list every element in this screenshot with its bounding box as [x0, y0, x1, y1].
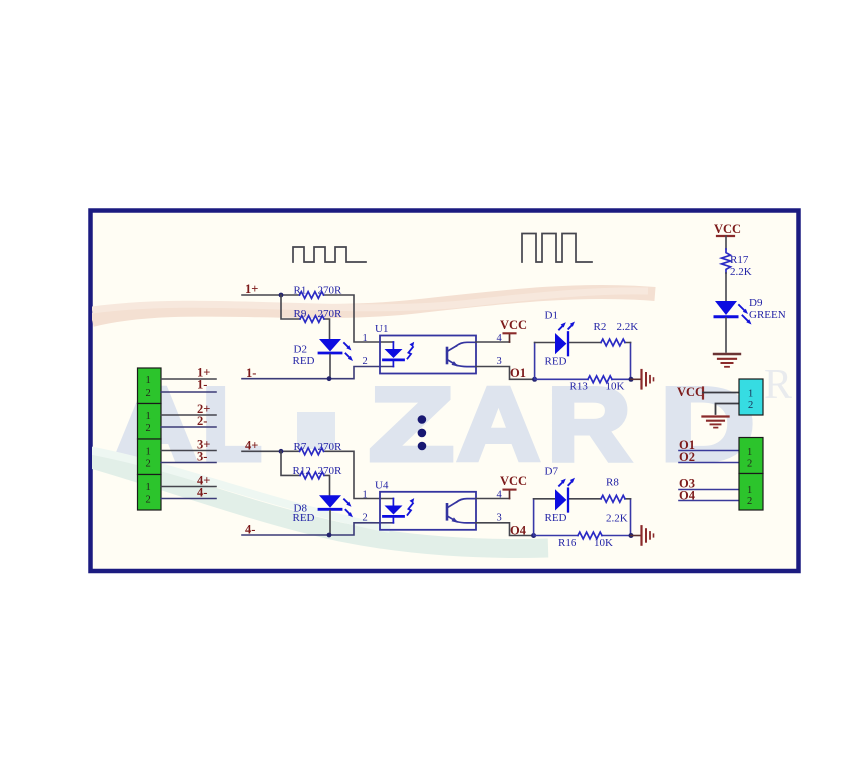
svg-text:270R: 270R — [318, 285, 343, 297]
svg-text:270R: 270R — [318, 465, 343, 477]
LED D8 — [319, 495, 341, 508]
svg-text:1: 1 — [747, 447, 752, 458]
svg-text:O4: O4 — [510, 524, 527, 538]
LED D9 — [715, 301, 737, 315]
wire — [242, 295, 393, 342]
svg-text:270R: 270R — [318, 441, 343, 453]
svg-text:1: 1 — [146, 375, 151, 386]
junction — [327, 533, 332, 538]
resistor R2 — [601, 339, 625, 346]
svg-text:VCC: VCC — [500, 474, 527, 488]
resistor R17 — [722, 249, 731, 273]
waveform W2 — [522, 234, 592, 263]
svg-text:L: L — [202, 367, 262, 483]
svg-text:D2: D2 — [294, 344, 307, 356]
svg-text:1: 1 — [146, 447, 151, 458]
ground (D9) — [714, 353, 740, 355]
terminal block J1 — [138, 368, 162, 404]
pin 3 / O1 — [476, 367, 535, 380]
LED D2 — [319, 339, 341, 352]
svg-text:4+: 4+ — [245, 439, 258, 453]
wire — [242, 523, 393, 535]
op-to-coupler U4 — [380, 492, 476, 530]
wire R16 row — [534, 535, 631, 537]
svg-text:2: 2 — [146, 459, 151, 470]
svg-text:RED: RED — [545, 512, 567, 524]
svg-text:2: 2 — [146, 388, 151, 399]
svg-text:RED: RED — [293, 512, 315, 524]
O2 wire — [679, 462, 739, 464]
wire — [281, 451, 330, 495]
junction — [279, 293, 284, 298]
waveform W1 — [293, 247, 366, 262]
J1 pin wires — [161, 378, 216, 380]
LED D1 — [555, 333, 566, 354]
junction O4 — [531, 533, 536, 538]
svg-text:1: 1 — [146, 411, 151, 422]
ground (O1) — [631, 378, 641, 380]
svg-text:R8: R8 — [606, 477, 619, 489]
J4 pin wires — [161, 486, 216, 488]
wire — [242, 451, 393, 498]
svg-text:1: 1 — [146, 482, 151, 493]
svg-text:2: 2 — [747, 496, 752, 507]
pin 4 / VCC — [476, 498, 510, 500]
resistor R8 — [601, 495, 625, 502]
ellipsis dots — [418, 415, 427, 424]
resistor R7 — [300, 448, 324, 455]
terminal block J4 — [138, 475, 162, 511]
wire — [725, 273, 727, 301]
svg-text:R17: R17 — [730, 254, 749, 266]
resistor R12 — [300, 472, 324, 479]
wire — [703, 392, 739, 394]
resistor R9 — [300, 316, 324, 323]
O3 wire — [679, 489, 739, 491]
svg-text:1+: 1+ — [245, 282, 258, 296]
svg-text:A: A — [457, 367, 540, 483]
svg-text:2: 2 — [747, 459, 752, 470]
terminal block P2 (green) — [739, 438, 763, 474]
terminal block J3 — [138, 439, 162, 475]
svg-text:2-: 2- — [197, 414, 207, 428]
resistor R16 — [578, 532, 602, 539]
svg-text:R12: R12 — [293, 465, 311, 477]
ground (O4) — [631, 535, 641, 537]
svg-text:1: 1 — [748, 389, 753, 400]
svg-text:Z: Z — [369, 367, 454, 483]
svg-text:R13: R13 — [570, 381, 589, 393]
wire — [716, 404, 740, 415]
svg-text:1: 1 — [363, 333, 368, 344]
junction — [629, 533, 634, 538]
svg-text:R7: R7 — [294, 441, 307, 453]
svg-text:GREEN: GREEN — [749, 309, 786, 321]
resistor R1 — [300, 292, 324, 299]
junction — [629, 377, 634, 382]
svg-text:2.2K: 2.2K — [617, 321, 639, 333]
svg-text:VCC: VCC — [677, 385, 704, 399]
terminal block P1 (cyan) — [739, 379, 763, 415]
wire — [725, 236, 727, 249]
svg-text:D1: D1 — [545, 310, 558, 322]
U1 light arrow — [408, 347, 414, 359]
svg-text:2: 2 — [363, 512, 368, 523]
svg-text:3: 3 — [497, 356, 502, 367]
svg-text:RED: RED — [545, 356, 567, 368]
svg-text:D7: D7 — [545, 466, 559, 478]
svg-text:3-: 3- — [197, 450, 207, 464]
svg-text:4-: 4- — [197, 486, 207, 500]
svg-text:RED: RED — [293, 355, 315, 367]
svg-text:2.2K: 2.2K — [606, 513, 628, 525]
terminal block J2 — [138, 404, 162, 440]
J2 pin wires — [161, 414, 216, 416]
junction O1 — [532, 377, 537, 382]
svg-text:R16: R16 — [558, 537, 577, 549]
svg-text:O1: O1 — [510, 366, 526, 380]
svg-text:2: 2 — [146, 495, 151, 506]
wire R13 row — [535, 378, 631, 380]
ground (VCC header) — [703, 415, 729, 417]
svg-text:4: 4 — [497, 490, 503, 501]
LED D7 — [555, 489, 566, 510]
wire D7 loop — [534, 499, 631, 536]
svg-text:D9: D9 — [749, 297, 763, 309]
svg-text:3: 3 — [497, 512, 502, 523]
svg-text:2: 2 — [363, 356, 368, 367]
U4 phototransistor — [446, 504, 449, 519]
svg-text:VCC: VCC — [500, 318, 527, 332]
U1 internal LED — [392, 342, 394, 349]
svg-text:4: 4 — [497, 333, 503, 344]
U4 light arrow — [408, 503, 414, 515]
O4 wire — [679, 500, 739, 502]
terminal block P3 (green) — [739, 474, 763, 511]
junction — [327, 376, 332, 381]
schematic sheet — [91, 211, 799, 572]
U4 internal LED — [392, 499, 394, 506]
svg-text:VCC: VCC — [714, 222, 741, 236]
resistor R13 — [588, 376, 612, 383]
wire D1 loop — [535, 343, 631, 380]
junction — [279, 449, 284, 454]
svg-text:2: 2 — [748, 400, 753, 411]
wire — [242, 367, 393, 379]
J3 pin wires — [161, 450, 216, 452]
wire — [281, 295, 330, 339]
pin 3 / O4 — [476, 523, 534, 536]
svg-text:R9: R9 — [294, 308, 307, 320]
op-to-coupler U1 — [380, 336, 476, 374]
svg-text:U1: U1 — [375, 323, 388, 335]
svg-text:1: 1 — [747, 485, 752, 496]
svg-text:1: 1 — [363, 490, 368, 501]
svg-text:2: 2 — [146, 423, 151, 434]
svg-text:10K: 10K — [606, 381, 625, 393]
svg-text:2.2K: 2.2K — [730, 266, 752, 278]
svg-text:U4: U4 — [375, 480, 389, 492]
U1 phototransistor — [446, 348, 449, 363]
svg-text:270R: 270R — [318, 308, 343, 320]
svg-text:10K: 10K — [594, 537, 613, 549]
svg-text:1-: 1- — [246, 366, 256, 380]
svg-text:R2: R2 — [594, 321, 607, 333]
pin 4 / VCC — [476, 341, 510, 343]
svg-text:R1: R1 — [294, 285, 307, 297]
O1 wire — [679, 450, 739, 452]
svg-text:R: R — [764, 362, 792, 408]
svg-text:1-: 1- — [197, 378, 207, 392]
